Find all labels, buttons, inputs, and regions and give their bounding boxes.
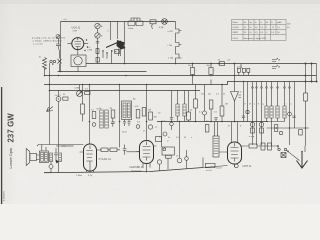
terminal pair left — [50, 60, 52, 62]
tube V5 electrodes — [231, 143, 239, 162]
wire V3 grid drop — [146, 85, 148, 141]
capacitor C4 series — [96, 42, 99, 44]
tube V3 IF/det UBF11 envelope — [140, 141, 154, 164]
node dots right link — [275, 127, 306, 129]
svg-text:7Ω: 7Ω — [201, 94, 204, 96]
inductor T1 winding — [74, 57, 82, 65]
wire transformer primary up — [42, 145, 46, 152]
wire R19 R20 row — [100, 149, 120, 151]
resistor R3 — [85, 92, 91, 95]
wire to tube V4 — [62, 145, 74, 147]
capacitor C5 padder — [115, 50, 120, 54]
dark wiper arrow — [56, 160, 60, 164]
svg-text:Röhre: Röhre — [233, 21, 238, 24]
svg-text:4-6012/37: 4-6012/37 — [4, 190, 6, 201]
wiper arrow into volume line — [47, 107, 54, 112]
capacitor C11 — [170, 118, 173, 123]
svg-text:0,1A: 0,1A — [159, 26, 164, 29]
capacitor C20 trimmer — [288, 112, 292, 116]
svg-text:UCL11: UCL11 — [233, 38, 239, 40]
svg-text:5,5: 5,5 — [255, 32, 258, 34]
wire coupling — [125, 152, 140, 155]
wire box feeds — [162, 122, 169, 170]
resistor R4 — [63, 97, 68, 100]
resistor R15 — [260, 128, 264, 133]
capacitor C14 electrolytic — [192, 64, 194, 76]
svg-text:Regelstufe: Regelstufe — [132, 170, 143, 173]
wire coil taps to B+ bus — [103, 49, 121, 64]
socket J1 antenna — [95, 23, 100, 28]
svg-text:Loewe Opta: Loewe Opta — [9, 147, 13, 168]
fuse F1 — [150, 20, 156, 24]
shielded component box — [162, 147, 174, 155]
svg-text:u.KW: u.KW — [87, 49, 92, 51]
wire chassis bus — [44, 82, 317, 85]
tube V1 electrodes — [75, 37, 82, 50]
svg-text:Co 0,1: Co 0,1 — [55, 95, 62, 97]
wire drops to chassis — [193, 76, 212, 85]
capacitor C3 — [56, 39, 61, 50]
tube V4 electrodes — [86, 146, 92, 166]
wire right edge stub — [316, 64, 318, 82]
svg-text:0: 0 — [266, 27, 267, 29]
svg-text:3 NF: 3 NF — [73, 31, 78, 33]
box label plate — [166, 155, 172, 158]
tube V1 mixer envelope — [72, 38, 84, 50]
node junction dots on buses — [44, 63, 318, 86]
node pin dots tube V1 — [84, 39, 88, 51]
wire far right stub — [311, 64, 313, 82]
wire heater run to switch — [245, 145, 279, 147]
capacitor C35 — [279, 131, 282, 134]
capacitor C19b — [242, 68, 245, 72]
svg-text:237 GW: 237 GW — [6, 113, 15, 143]
capacitor C8 IF1 — [128, 120, 131, 127]
label bank values — [245, 104, 293, 106]
capacitor C31 — [242, 116, 245, 118]
capacitor C18 drop — [239, 64, 249, 76]
mains plug arrow — [297, 152, 308, 169]
wire return corner — [202, 158, 204, 168]
resistor R17 — [49, 153, 52, 162]
choke L2 mains filter — [128, 21, 135, 26]
wire switch bank drops — [244, 82, 295, 146]
capacitor C19c — [247, 68, 250, 72]
wire right feed column — [305, 64, 307, 147]
resistor R23 — [111, 110, 115, 118]
wire lower distribution bus — [157, 121, 268, 123]
wire field line — [37, 145, 84, 147]
potentiometer P1 volume — [77, 91, 83, 97]
capacitor C26 — [123, 145, 127, 155]
inductor T1 oscillator coil box — [71, 55, 86, 67]
resistor R27 — [299, 130, 303, 136]
wire tube V2 anode drop — [89, 85, 91, 144]
capacitor C12 trimmer — [170, 122, 174, 126]
svg-text:2k: 2k — [184, 137, 186, 139]
wire second drop lower — [58, 101, 60, 146]
trimmer C2 — [56, 35, 60, 39]
capacitor C30 — [292, 116, 295, 118]
svg-text:Messwerte o. Signal 220V~: Messwerte o. Signal 220V~ — [244, 37, 268, 40]
resistor R21 — [206, 163, 216, 167]
svg-text:m=1,9: m=1,9 — [216, 168, 223, 170]
capacitor C27 — [177, 158, 182, 163]
resistor R28 — [205, 125, 209, 133]
wire to mains arrow — [292, 146, 306, 161]
svg-text:UBF11: UBF11 — [233, 32, 239, 34]
resistor R9 — [149, 112, 153, 120]
capacitor C6 — [56, 97, 61, 102]
table tube data grid — [232, 20, 287, 41]
svg-text:1 Watt: 1 Watt — [76, 174, 82, 177]
svg-text:.75: .75 — [271, 27, 274, 29]
capacitor C29 — [268, 143, 272, 150]
capacitor C9 — [136, 125, 140, 129]
resistor R1 — [96, 49, 99, 54]
svg-text:UAF/UBF 11: UAF/UBF 11 — [130, 166, 145, 169]
lamp E1 dial light — [162, 19, 168, 25]
table cell text — [233, 21, 283, 40]
resistor R25 series in B+ — [220, 62, 225, 66]
svg-text:2,6: 2,6 — [277, 32, 280, 34]
wire left border rule — [1, 87, 3, 204]
speaker LS1 — [26, 149, 30, 166]
capacitor C7 IF1 — [123, 120, 126, 127]
node switch bank contact dots — [252, 87, 291, 89]
capacitor C10 — [148, 125, 152, 129]
svg-text:2M: 2M — [148, 110, 151, 112]
capacitor C17 — [214, 118, 217, 122]
node dot — [277, 145, 279, 147]
resistor R26 — [275, 125, 278, 132]
wire tube V5 pins — [219, 146, 245, 167]
svg-text:m+1,0: m+1,0 — [206, 170, 213, 172]
coil L4 osc pair — [176, 104, 179, 116]
capacitor C19a — [237, 68, 240, 72]
resistor R20 — [110, 148, 117, 152]
svg-text:Entst.: Entst. — [129, 27, 135, 30]
svg-text:95: 95 — [249, 32, 251, 34]
resistor R5 — [81, 104, 85, 114]
coil L6 — [270, 106, 273, 118]
tube V3 electrodes — [143, 142, 151, 161]
svg-text:mA/V: mA/V — [277, 21, 282, 24]
capacitor C22 — [250, 122, 254, 126]
label value smudges mid band — [63, 89, 242, 143]
switch S1a wave band — [58, 59, 62, 64]
wire tube V4 pins — [80, 150, 101, 173]
resistor R11 — [194, 99, 198, 108]
node dots lower bus — [89, 121, 236, 123]
svg-text:UCH 11: UCH 11 — [72, 26, 81, 29]
wire socket column — [97, 29, 99, 64]
IF transformer T4 box — [213, 136, 219, 157]
node dots left column — [49, 75, 51, 92]
svg-text:g: g — [263, 104, 264, 106]
wire speaker to transformer — [36, 155, 39, 160]
svg-text:-2: -2 — [266, 32, 268, 34]
wire right lower link — [267, 127, 310, 129]
wire cathode return bus — [44, 168, 203, 173]
coil L5 — [265, 106, 268, 118]
transformer T3 output — [39, 151, 48, 163]
capacitor C28 — [261, 143, 265, 150]
svg-text:L = 2 x 0,5: L = 2 x 0,5 — [33, 43, 44, 45]
wire tuning gang drops — [111, 22, 125, 64]
resistor R16 dropper — [304, 93, 308, 101]
resistor R14 — [251, 128, 255, 133]
svg-text:UCH11: UCH11 — [233, 27, 239, 29]
svg-text:1M: 1M — [225, 104, 228, 106]
svg-text:95: 95 — [244, 32, 246, 34]
wire IF1 drop — [119, 85, 121, 148]
capacitor C15 electrolytic — [210, 64, 212, 76]
resistor R8 — [142, 108, 146, 117]
capacitor C34 — [185, 157, 189, 161]
resistor R1b — [96, 58, 99, 63]
resistor R24 — [156, 137, 162, 142]
wire output stage return — [203, 166, 228, 168]
capacitor C16 — [203, 111, 207, 115]
svg-text:2Ω: 2Ω — [208, 94, 211, 96]
svg-text:Ug: Ug — [249, 22, 251, 24]
svg-text:a m g: a m g — [249, 136, 255, 138]
wire drops under heater bus — [172, 91, 189, 118]
svg-text:a 160: a 160 — [168, 58, 174, 60]
svg-text:i = Tonabn. +UKW nur Ersatztei: i = Tonabn. +UKW nur Ersatzteil — [32, 39, 62, 42]
svg-text:Uk: Uk — [266, 22, 268, 24]
capacitor C23 — [259, 122, 263, 126]
svg-text:95: 95 — [244, 27, 246, 29]
svg-text:0,5M: 0,5M — [75, 88, 80, 90]
resistor R18 — [58, 153, 61, 162]
svg-text:1,8: 1,8 — [260, 32, 263, 34]
tuning indicator triangle — [231, 92, 239, 102]
capacitor C24 — [54, 148, 58, 162]
wire AVC bus — [44, 75, 317, 77]
wire screen bus — [58, 71, 147, 73]
svg-text:2x0,1: 2x0,1 — [237, 67, 243, 69]
node tap dots — [102, 50, 112, 53]
wire drop from top rail to screen bus — [60, 22, 62, 72]
svg-text:CY/UCL 11: CY/UCL 11 — [99, 158, 112, 161]
wire left drop to lower left — [49, 85, 51, 145]
wire left drop upper — [49, 63, 51, 85]
wire tube V1 leads — [67, 44, 88, 55]
capacitor C25 — [49, 165, 53, 169]
tube V4 output UCL11 envelope — [84, 144, 97, 171]
capacitor C33 — [157, 160, 161, 164]
terminal TA pickup marks lower — [272, 65, 278, 69]
wire grid drop x82.5 — [82, 85, 84, 105]
switch S4 interlock box — [281, 153, 286, 158]
tube V5 mixer UCH11 envelope — [228, 142, 242, 164]
svg-text:1,8: 1,8 — [271, 32, 274, 34]
wire cathode column — [51, 146, 66, 173]
switch S2 rotor dark wedge — [106, 41, 121, 48]
svg-text:1,6: 1,6 — [255, 27, 258, 29]
wire coil bottoms — [267, 118, 285, 146]
svg-text:Cw: Cw — [163, 121, 167, 123]
wire tube V3 pins — [137, 146, 157, 173]
wire heater bus — [50, 90, 201, 92]
resistor R22 — [249, 144, 257, 148]
coil L8 — [283, 106, 286, 118]
label row above V3 — [168, 137, 193, 139]
svg-text:u 220: u 220 — [168, 31, 174, 33]
terminal TA pickup marks — [272, 58, 278, 62]
resistor R2 voltage selector with taps — [176, 22, 180, 64]
wire top rail — [61, 21, 176, 23]
svg-text:2,1: 2,1 — [277, 27, 280, 29]
wire B+ bus — [86, 63, 317, 65]
resistor R10 — [187, 112, 191, 120]
capacitor C21 trimmer — [246, 110, 249, 113]
wire antenna coil to AVC bus — [44, 68, 46, 76]
svg-text:1M: 1M — [154, 117, 157, 119]
svg-text:2,4: 2,4 — [260, 27, 263, 29]
node dots near switch — [287, 151, 289, 153]
svg-text:Is: Is — [260, 22, 262, 24]
svg-text:95: 95 — [249, 27, 251, 29]
svg-text:5n: 5n — [168, 137, 170, 139]
node tube V5 cathode ring — [234, 164, 238, 168]
capacitor C32 — [111, 118, 115, 127]
svg-text:UCH 11: UCH 11 — [243, 165, 252, 168]
wire second drop — [58, 91, 60, 97]
resistor R7 — [136, 110, 140, 119]
resistor R19 — [101, 148, 108, 152]
wire T4 feeds — [215, 122, 218, 137]
wire V5 grid top — [232, 122, 238, 143]
resistor R12 — [209, 100, 213, 109]
resistor R13 — [220, 106, 224, 116]
IF transformer T2 box — [122, 101, 132, 120]
wire osc box to screen bus — [77, 67, 79, 72]
circle trimmer C13 — [163, 132, 167, 136]
resistor R6 — [92, 112, 96, 119]
socket J2 earth — [95, 33, 100, 38]
switch S3 mains contacts — [278, 148, 280, 150]
coil L3 HF choke pair — [100, 110, 103, 128]
coil L7 — [276, 106, 279, 118]
